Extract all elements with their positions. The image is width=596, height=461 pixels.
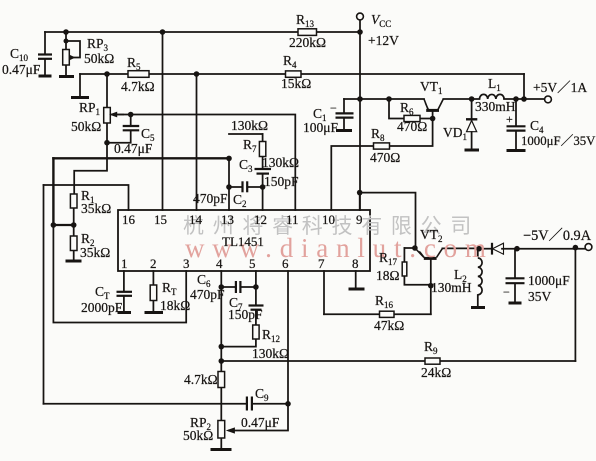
svg-text:150pF: 150pF — [264, 174, 299, 189]
svg-text:50kΩ: 50kΩ — [71, 119, 101, 134]
svg-text:2000pF: 2000pF — [81, 300, 123, 315]
svg-text:35kΩ: 35kΩ — [81, 201, 111, 216]
svg-text:4: 4 — [216, 256, 223, 271]
svg-text:11: 11 — [286, 212, 299, 227]
svg-text:50kΩ: 50kΩ — [183, 428, 213, 443]
svg-text:470pF: 470pF — [190, 287, 225, 302]
svg-text:−: − — [330, 101, 337, 115]
svg-text:0.47μF: 0.47μF — [114, 141, 153, 156]
svg-text:+12V: +12V — [368, 33, 399, 48]
svg-text:0.47μF: 0.47μF — [241, 415, 280, 430]
svg-text:1: 1 — [121, 256, 128, 271]
svg-text:0.47μF: 0.47μF — [2, 62, 41, 77]
svg-text:15: 15 — [154, 212, 167, 227]
svg-text:470Ω: 470Ω — [397, 119, 427, 134]
svg-text:8: 8 — [352, 256, 359, 271]
svg-text:18Ω: 18Ω — [376, 268, 400, 283]
svg-text:18kΩ: 18kΩ — [160, 298, 190, 313]
svg-text:−: − — [503, 285, 510, 299]
svg-text:2: 2 — [150, 256, 157, 271]
svg-text:150pF: 150pF — [228, 307, 263, 322]
svg-text:14: 14 — [189, 212, 203, 227]
svg-text:6: 6 — [282, 256, 289, 271]
svg-text:24kΩ: 24kΩ — [421, 365, 451, 380]
svg-text:TL1451: TL1451 — [222, 234, 264, 249]
svg-text:7: 7 — [318, 256, 325, 271]
svg-text:47kΩ: 47kΩ — [374, 318, 404, 333]
svg-text:130mH: 130mH — [431, 280, 472, 295]
svg-text:470Ω: 470Ω — [370, 150, 400, 165]
svg-text:35V: 35V — [528, 289, 552, 304]
svg-text:4.7kΩ: 4.7kΩ — [121, 79, 155, 94]
svg-text:+5V／1A: +5V／1A — [533, 80, 587, 95]
svg-text:130kΩ: 130kΩ — [262, 155, 299, 170]
svg-text:220kΩ: 220kΩ — [289, 35, 326, 50]
svg-text:1000μF／35V: 1000μF／35V — [521, 134, 596, 148]
svg-text:10: 10 — [322, 212, 335, 227]
svg-text:130kΩ: 130kΩ — [252, 346, 289, 361]
svg-text:1000μF: 1000μF — [528, 273, 570, 288]
svg-text:15kΩ: 15kΩ — [281, 76, 311, 91]
svg-text:16: 16 — [122, 212, 136, 227]
svg-text:130kΩ: 130kΩ — [231, 118, 268, 133]
svg-text:470pF: 470pF — [193, 191, 228, 206]
svg-text:12: 12 — [254, 212, 267, 227]
svg-text:−5V／0.9A: −5V／0.9A — [523, 227, 592, 244]
svg-text:35kΩ: 35kΩ — [80, 245, 110, 260]
svg-text:+: + — [506, 112, 513, 126]
svg-text:5: 5 — [249, 256, 256, 271]
svg-text:3: 3 — [183, 256, 190, 271]
svg-text:13: 13 — [221, 212, 234, 227]
svg-text:50kΩ: 50kΩ — [84, 51, 114, 66]
svg-text:9: 9 — [356, 212, 363, 227]
svg-text:100μF: 100μF — [303, 120, 338, 135]
svg-text:4.7kΩ: 4.7kΩ — [184, 372, 218, 387]
